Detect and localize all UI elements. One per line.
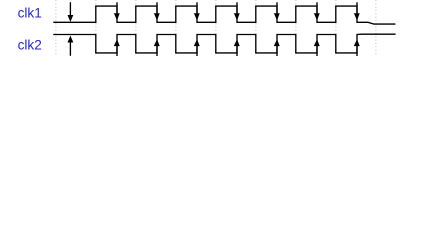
arrow down at falling edge x=357.0 bbox=[354, 2, 360, 20]
arrow down at falling edge x=197.0 bbox=[194, 2, 200, 20]
arrow up at rising edge x=317.0 bbox=[314, 39, 320, 56]
arrow down at falling edge x=237.0 bbox=[234, 2, 240, 20]
gridline at x=295.9 bbox=[295, 0, 297, 56]
gridline at x=335.9 bbox=[335, 0, 337, 56]
arrow down (marker) at x=70.4 bbox=[68, 2, 74, 22]
gridline at x=135.9 bbox=[135, 0, 137, 56]
arrow down at falling edge x=277.0 bbox=[274, 2, 280, 20]
wire clk1 waveform bbox=[53, 6, 395, 24]
gridline at x=95.9 bbox=[95, 0, 97, 56]
gridline at x=175.9 bbox=[175, 0, 177, 56]
svg-text:clk2: clk2 bbox=[18, 37, 42, 52]
arrow up at rising edge x=157.0 bbox=[154, 39, 160, 56]
arrow up at rising edge x=117.0 bbox=[114, 39, 120, 56]
down arrows marking clk1 falling edges bbox=[68, 2, 360, 22]
wire clk2 waveform bbox=[53, 34, 395, 53]
arrow down at falling edge x=117.0 bbox=[114, 2, 120, 20]
gridline at x=215.9 bbox=[215, 0, 217, 56]
arrow down at falling edge x=157.0 bbox=[154, 2, 160, 20]
gridline at x=255.9 bbox=[255, 0, 257, 56]
arrow up at rising edge x=277.0 bbox=[274, 39, 280, 56]
arrow up at rising edge x=237.0 bbox=[234, 39, 240, 56]
gridline at x=55.9 bbox=[55, 0, 57, 56]
svg-text:clk1: clk1 bbox=[18, 5, 42, 20]
up arrows marking clk2 rising edges bbox=[68, 36, 360, 57]
arrow down at falling edge x=317.0 bbox=[314, 2, 320, 20]
arrow up at rising edge x=197.0 bbox=[194, 39, 200, 56]
arrow up at rising edge x=357.0 bbox=[354, 39, 360, 56]
timing grid: dotted vertical gridlines every 40px bbox=[56, 0, 376, 56]
gridline at x=375.9 bbox=[375, 0, 377, 56]
arrow up (marker) at x=70.4 bbox=[68, 36, 74, 56]
